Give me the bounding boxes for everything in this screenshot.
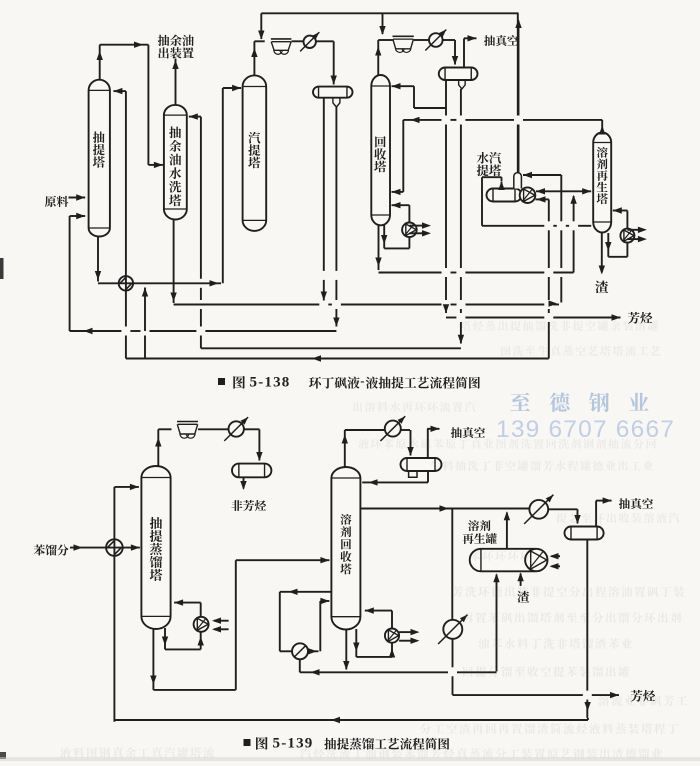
svg-text:139 6707 6667: 139 6707 6667 xyxy=(496,416,675,443)
svg-text:5-139: 5-139 xyxy=(273,736,314,752)
svg-text:-: - xyxy=(360,373,364,388)
svg-text:5-138: 5-138 xyxy=(250,375,291,391)
